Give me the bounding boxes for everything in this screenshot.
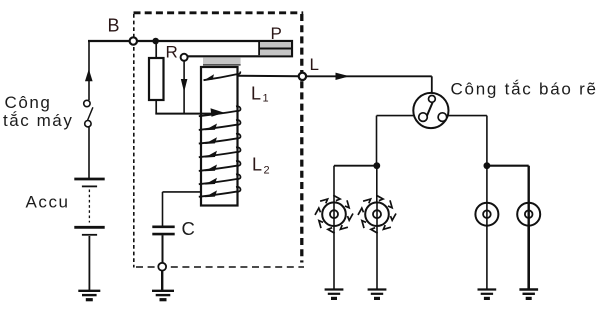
junction right bus xyxy=(484,162,491,169)
battery Accu xyxy=(74,179,104,235)
svg-text:Công tắc báo rẽ: Công tắc báo rẽ xyxy=(451,80,598,99)
svg-text:P: P xyxy=(271,24,282,43)
ground under DS4 xyxy=(519,290,538,301)
lamp DS3 (front-right) xyxy=(475,203,498,226)
wire: switch to left lamp bus xyxy=(377,116,415,166)
wire: coil top to node L xyxy=(238,75,300,78)
wire: feed from ignition switch to node B xyxy=(88,40,130,42)
svg-text:Accu: Accu xyxy=(26,193,70,212)
wire: terminal to ground xyxy=(161,270,163,290)
wire: coil bottom to capacitor xyxy=(163,192,203,226)
wire: to coil entry with arrow xyxy=(155,108,224,117)
wire: node L to turn-signal switch with arrow xyxy=(306,73,432,94)
svg-text:L: L xyxy=(251,84,261,104)
lamp DS2 (lit, rear-left) xyxy=(358,195,396,233)
wire: junction down to resistor xyxy=(155,41,157,58)
wire: left bus xyxy=(334,166,377,203)
wire: switch to right lamp bus xyxy=(448,116,487,166)
svg-text:2: 2 xyxy=(264,165,270,177)
terminal on box bottom (open circle) xyxy=(158,263,166,271)
wire: lamp DS2 to ground xyxy=(376,226,378,289)
armature (grey) xyxy=(203,57,241,65)
flasher relay box (dashed border) xyxy=(134,13,305,268)
wire: capacitor to box terminal xyxy=(162,235,164,263)
ignition switch (Cong tac may) xyxy=(84,100,93,127)
svg-text:tắc máy: tắc máy xyxy=(3,111,73,130)
junction left bus xyxy=(373,162,380,169)
wire: lamp DS1 to ground xyxy=(333,226,335,289)
contact arm with points P xyxy=(156,41,292,56)
resistor R xyxy=(149,58,164,100)
coil core xyxy=(201,67,238,206)
svg-text:Công: Công xyxy=(5,93,52,112)
lamp DS4 (rear-right) xyxy=(517,203,540,226)
junction at B feed xyxy=(152,38,159,45)
capacitor C xyxy=(152,227,174,234)
wire: lamp DS3 to ground xyxy=(486,226,488,289)
terminal on contact arm (open circle) xyxy=(181,54,188,61)
coil L1 turn xyxy=(204,72,241,81)
ground under DS2 xyxy=(368,290,387,301)
coil L2 winding xyxy=(199,106,241,197)
ground under battery xyxy=(78,291,100,302)
wire: node B to junction xyxy=(137,40,156,42)
ground under relay xyxy=(152,291,174,302)
svg-text:L: L xyxy=(252,155,262,175)
ground under DS1 xyxy=(325,290,344,301)
turn signal switch U1 xyxy=(413,93,448,128)
wire: battery to ground xyxy=(88,236,90,290)
svg-text:C: C xyxy=(182,218,195,239)
wire: resistor bottom xyxy=(155,100,157,114)
svg-text:B: B xyxy=(108,16,120,36)
wire: arm terminal branch with down arrow xyxy=(181,61,188,114)
wire: switch to battery xyxy=(88,127,90,178)
svg-text:R: R xyxy=(166,43,178,62)
node B (open terminal) xyxy=(130,37,137,44)
wire: lamp DS4 to ground xyxy=(527,226,530,289)
ground under DS3 xyxy=(478,290,497,301)
node L (open terminal) xyxy=(299,73,306,80)
svg-text:L: L xyxy=(310,55,319,74)
wire: ignition branch with up arrow xyxy=(85,40,93,100)
lamp DS1 (lit, front-left) xyxy=(315,195,353,233)
wire: right bus xyxy=(487,166,529,203)
svg-text:1: 1 xyxy=(263,93,269,105)
